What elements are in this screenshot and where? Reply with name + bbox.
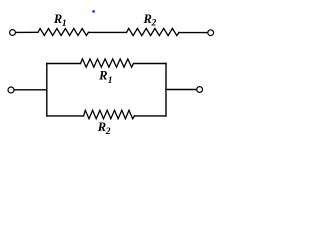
label R2 (series)	[143, 12, 157, 29]
stray blue dot artifact	[92, 10, 96, 14]
terminal T4 (parallel circuit, right)	[197, 87, 203, 93]
label R1 (parallel)	[98, 69, 112, 86]
wire (T1 to R1)	[16, 31, 38, 33]
svg-text:1: 1	[62, 19, 67, 29]
wire (R1 to top-right corner)	[134, 63, 167, 65]
wire (right vertical side of parallel loop)	[165, 64, 167, 116]
wire (bottom-left branch to R2)	[47, 115, 84, 117]
resistor R2 (series)	[127, 28, 180, 35]
svg-text:1: 1	[108, 76, 113, 86]
resistor R1 (series)	[38, 29, 89, 36]
wire (T3 to left junction)	[14, 89, 47, 91]
svg-text:R: R	[143, 12, 152, 26]
wire (left vertical side of parallel loop)	[46, 64, 48, 116]
svg-text:2: 2	[151, 19, 157, 29]
label R2 (parallel)	[97, 120, 111, 137]
resistor R1 (parallel, top branch)	[81, 59, 134, 67]
terminal T2 (series circuit, right)	[208, 30, 214, 36]
wire (R2 to bottom-right corner)	[135, 115, 167, 117]
label R1 (series)	[53, 12, 67, 29]
svg-text:2: 2	[105, 127, 111, 137]
svg-text:R: R	[97, 120, 106, 134]
wire (R2 to T2)	[179, 32, 208, 34]
svg-text:R: R	[53, 12, 62, 26]
terminal T1 (series circuit, left)	[10, 30, 16, 36]
wire (R1 to R2)	[89, 31, 127, 33]
wire (right junction to T4)	[166, 89, 197, 91]
terminal T3 (parallel circuit, left)	[8, 87, 14, 93]
wire (top-left branch to R1)	[47, 63, 81, 65]
resistor R2 (parallel, bottom branch)	[84, 110, 135, 118]
svg-text:R: R	[98, 69, 107, 83]
